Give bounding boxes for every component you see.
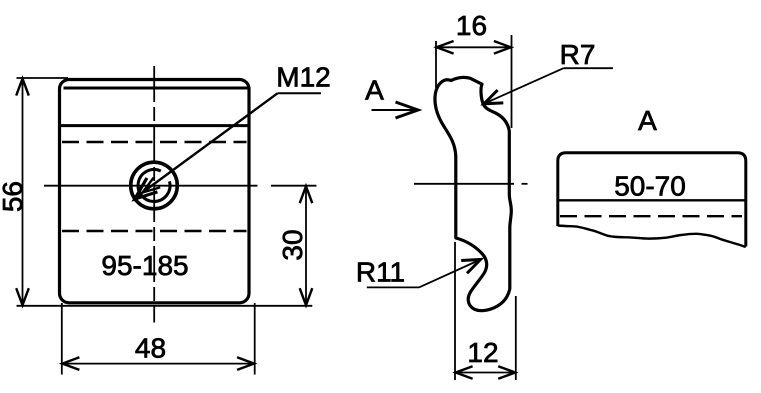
arrow 16 left [437,41,454,54]
plate outline [60,80,250,303]
dimension line 12 [455,372,516,374]
leader shelf M12 [278,92,322,94]
svg-text:56: 56 [0,181,28,212]
leader shelf R7 [564,67,614,69]
extension line 16 left [435,41,437,88]
hidden dashed line view A [560,215,742,217]
extension line 16 right [511,35,513,128]
face line view A [557,199,748,201]
hidden dashed line upper [62,141,247,143]
svg-text:30: 30 [277,229,308,260]
arrow 56 down [16,288,29,305]
arrow 48 left [62,357,79,370]
arrow 16 right [494,41,511,54]
horizontal centerline [44,185,258,187]
leader arrowhead R11 [461,260,480,274]
svg-text:48: 48 [135,333,166,364]
horizontal centerline middle view [414,183,514,185]
svg-text:R7: R7 [560,39,596,70]
arrow 12 left [456,366,473,379]
arrow 12 right [498,366,515,379]
upper face line [60,124,249,127]
svg-text:M12: M12 [276,62,330,93]
extension line bottom shared 56/30 [17,305,313,307]
dimension line 16 [436,46,512,48]
arrow 30 down [300,288,313,305]
arrow 56 up [16,79,29,96]
hidden dashed line lower [62,230,247,232]
view A outline [558,153,746,247]
leader shelf R11 [367,286,419,288]
extension line 12 left [454,242,456,380]
leader line R7 [485,68,564,103]
extension line 48 left [61,303,63,375]
dimension line 56 [22,78,24,306]
extension line 12 right [515,296,517,380]
svg-text:A: A [365,75,384,106]
extension line 48 right [254,303,256,375]
dimension line 48 [62,363,255,365]
dimension line 30 [305,186,307,306]
svg-text:R11: R11 [356,257,405,288]
svg-text:12: 12 [467,337,498,368]
hole outer circle M12 [131,162,178,209]
seam line under top edge [64,87,249,90]
leader line R11 [419,260,481,288]
arrow 48 right [237,357,254,370]
leader line M12 [137,93,278,196]
hole inner circle [138,169,170,201]
leader arrowhead R7 [484,90,503,104]
break wavy line view A [558,226,746,248]
view arrow A [372,109,418,111]
svg-text:A: A [638,105,657,136]
leader arrowhead M12 [135,178,158,199]
profile outline [435,77,511,310]
arrow 30 up [300,186,313,203]
vertical centerline [153,66,155,323]
leader arrowhead M12 inner double stroke [143,178,161,193]
extension line top for 56 [17,77,69,79]
svg-text:16: 16 [456,10,487,41]
svg-text:95-185: 95-185 [101,250,188,281]
svg-text:50-70: 50-70 [614,170,686,201]
